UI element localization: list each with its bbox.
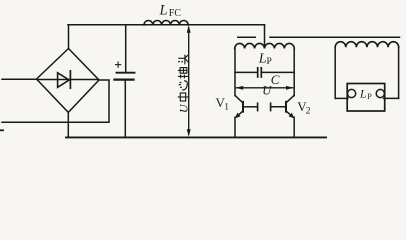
svg-text:P: P [367,92,372,101]
svg-text:1: 1 [224,102,229,112]
svg-text:2: 2 [306,107,311,117]
svg-text:P: P [267,57,272,67]
svg-text:C: C [271,72,280,87]
svg-text:U: U [262,84,272,98]
svg-text:L: L [359,88,366,100]
svg-text:L: L [159,3,168,19]
svg-text:U: U [177,103,191,113]
svg-text:FC: FC [169,8,182,19]
svg-text:L: L [258,52,267,67]
